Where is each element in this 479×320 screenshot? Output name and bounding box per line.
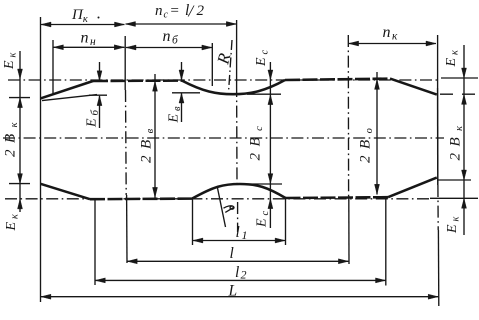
tick left end bottom level — [9, 183, 30, 185]
profile: top flange flat left — [93, 79, 182, 82]
radius R leader line — [229, 40, 232, 91]
extension line n_n left — [52, 40, 54, 94]
profile: top-left slant — [41, 81, 94, 98]
svg-text:l: l — [236, 224, 240, 241]
profile: bottom-left slant — [41, 184, 91, 199]
extension line l2 left — [94, 199, 96, 285]
svg-text:l: l — [235, 264, 239, 281]
dashed end-top level line, right margin — [440, 93, 478, 95]
dimension L — [41, 296, 438, 298]
dimension P_k — [41, 24, 125, 26]
dimension line 2B_v — [154, 74, 156, 198]
extension line l2 right — [385, 197, 387, 286]
extension line of bottom bulge right, l1 — [285, 198, 287, 245]
horizontal center axis line — [3, 137, 444, 139]
tick right flange top level — [441, 77, 478, 79]
profile: bottom flange flat left — [90, 197, 193, 200]
extension line of bottom bulge left, l1 — [192, 198, 194, 245]
section line at right head start, n_k left — [347, 35, 349, 196]
profile: bottom-right slant — [388, 178, 437, 198]
tick left end top level — [9, 97, 30, 99]
svg-text:n: n — [155, 3, 163, 19]
dimension line E_k / 2B_k left — [19, 51, 21, 212]
profile: top neck concave arc, radius R — [182, 80, 285, 94]
svg-text:L: L — [228, 283, 238, 300]
svg-text:c: c — [164, 10, 169, 21]
right end face / extension line — [437, 35, 439, 88]
svg-text:2: 2 — [197, 3, 205, 19]
svg-text:1: 1 — [242, 228, 248, 242]
dimension line 2B_o — [376, 72, 378, 195]
dimension line E_s / 2B_s center — [269, 62, 271, 228]
profile: bottom flange flat right — [286, 196, 389, 199]
dimension n_n — [53, 46, 124, 48]
svg-text:2: 2 — [241, 268, 247, 282]
dimension line E_k / 2B_k right — [463, 45, 465, 235]
slope leader line at bottom bulge — [218, 188, 226, 227]
dimension line E_v — [181, 62, 183, 80]
profile: bottom bulge convex arc — [193, 184, 286, 198]
profile: top-right slant — [390, 79, 437, 95]
horizontal reference line, top flange level — [8, 79, 437, 81]
tick right end bottom level — [437, 179, 471, 181]
profile: top flange flat right — [285, 79, 390, 80]
tick E_b level — [89, 94, 107, 96]
dimension n_c = l/2 — [126, 23, 237, 25]
left end face / extension line — [40, 17, 42, 302]
thin reference slant at left end — [42, 95, 97, 101]
section line at neck start (left) — [124, 36, 126, 90]
solid bottom reference extension, right margin — [430, 197, 478, 199]
tick E_s top level — [247, 93, 281, 95]
dimension l1 — [193, 240, 285, 242]
svg-text:=: = — [170, 3, 180, 19]
dimension l — [127, 260, 348, 262]
dimension n_b — [126, 47, 212, 49]
tick bottom bulge peak level — [245, 183, 282, 185]
slope mark gamma arrow — [224, 206, 235, 213]
horizontal reference line, bottom flange level — [5, 198, 429, 200]
svg-text:l: l — [230, 245, 234, 262]
dimension line E_b — [99, 62, 101, 81]
extension line n_b right — [211, 43, 213, 86]
dimension n_k — [349, 43, 436, 45]
central axis section line — [236, 20, 238, 85]
tick E_v level — [172, 92, 200, 94]
dimension l2 — [95, 279, 385, 281]
